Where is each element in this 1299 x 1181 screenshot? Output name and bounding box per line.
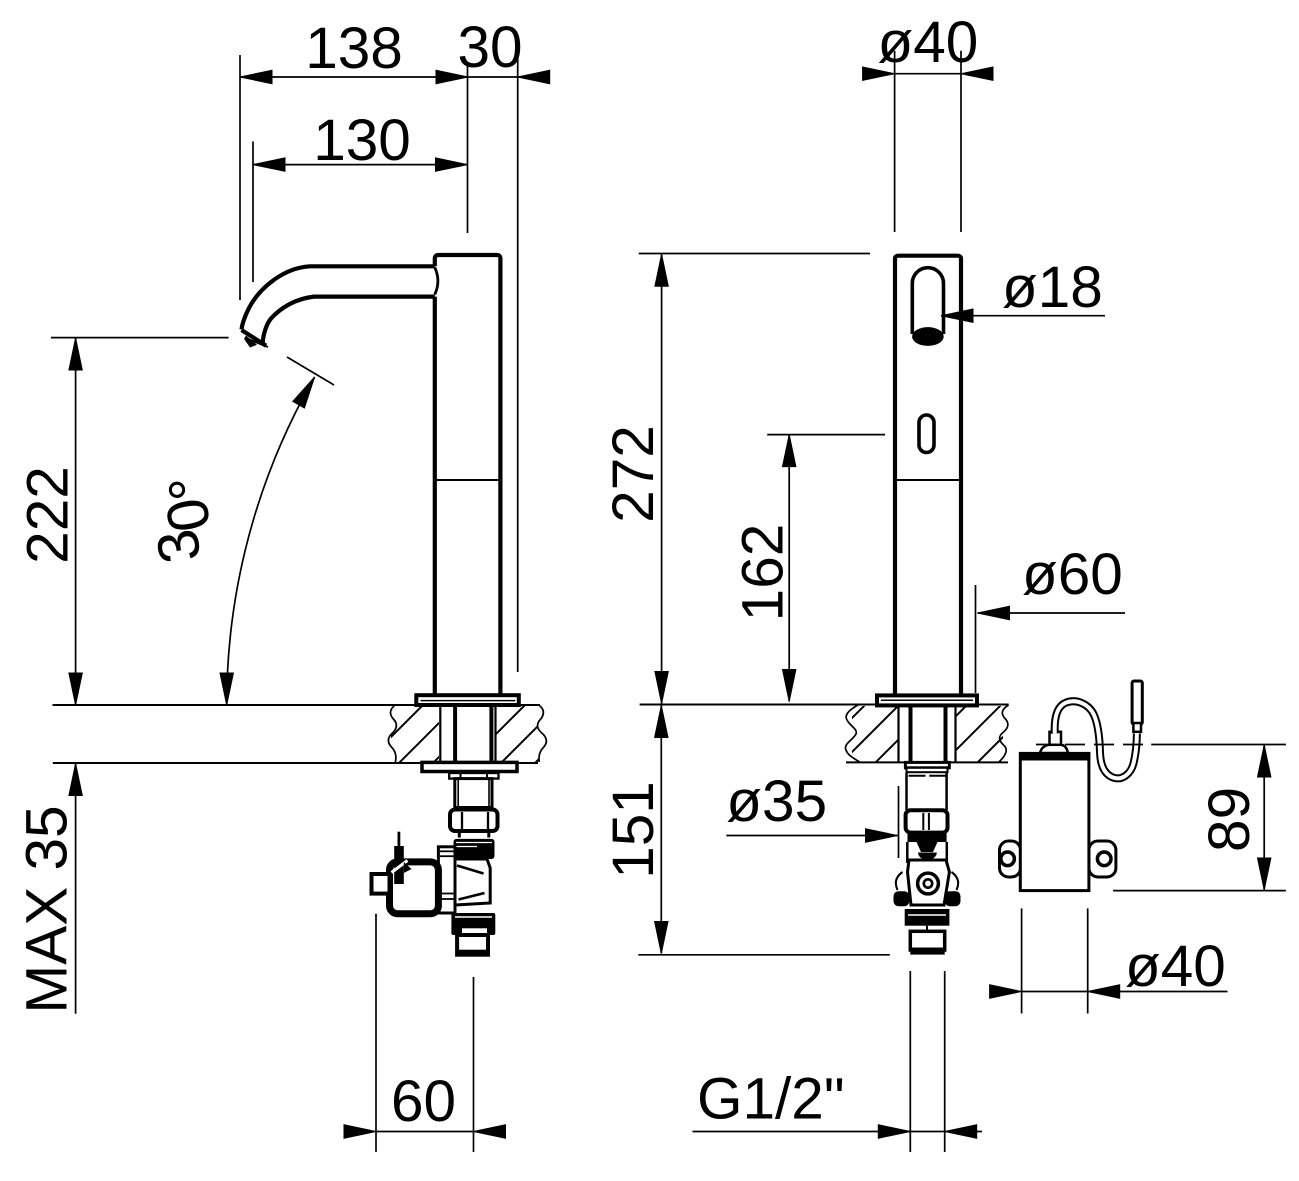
arrow 89 top [1258,745,1271,777]
extension line spout tip (138 dim) [239,55,241,300]
shank inner left front [909,705,913,762]
reference line sensor level [767,434,885,436]
svg-text:ø18: ø18 [1002,255,1103,320]
svg-text:30: 30 [457,15,522,80]
label 30deg [144,470,224,567]
dashed line box top level [1036,744,1151,746]
locknut inner line left [457,779,459,807]
arrow arc bottom [220,673,233,705]
svg-text:89: 89 [1197,787,1262,852]
extension dia40 box right [1087,908,1089,1013]
locknut band front [907,768,948,772]
control box body [1020,753,1089,890]
arrow MAX35 up [69,764,82,796]
arrow dia40 left [863,67,895,80]
valve black bottom front [905,909,950,926]
valve hex front [908,860,950,905]
outlet front [910,931,944,950]
solenoid tab [372,874,390,894]
locknut tick right [486,773,488,779]
cable inner white [1055,701,1137,778]
locknut chamfer band [449,773,498,779]
arrow 151 top [655,706,668,738]
valve body side view [455,859,490,905]
shank inner left [453,705,457,762]
mounting tab left [1000,841,1021,877]
spout tip face [242,330,267,346]
cable dome [1040,745,1068,753]
arrow dia18 [941,309,973,322]
extension line 60 left [375,914,377,1152]
connector plug [1132,681,1142,724]
arrow 60 left [344,1125,376,1138]
arrow 162 top [783,435,796,467]
tab hole right [1097,852,1111,866]
hatch left block B [852,706,899,762]
dimension line 60 [376,1131,474,1133]
reference line valve outlet [638,954,890,956]
arrow 151 bottom [655,922,668,954]
arrow 272 bottom [655,672,668,704]
extension line outlet (130 dim) [252,142,254,283]
dimension line 89 [1263,745,1265,890]
side lug left [894,891,910,906]
hatch left block A [391,706,439,762]
valve black top front [908,834,947,843]
outlet hole dia18 [912,327,944,346]
arrow 130 left [253,158,285,171]
arrow 30 right [518,70,550,83]
wavy edge left A [388,705,396,762]
dimension line dia40 box [1022,991,1228,993]
faucet body front view [895,256,961,695]
dimension line dia40 top [895,73,961,75]
extension line 60 right [473,977,475,1152]
extension line dia60 [975,585,977,693]
lug arc left [896,872,903,890]
leader dia35 [726,835,897,837]
G12 extension left [909,971,911,1152]
svg-text:138: 138 [305,16,403,81]
override screw outer [918,873,939,894]
arrow 130 right [436,158,468,171]
ref line 89 top [1151,744,1286,746]
nut facet line 2 [928,813,930,830]
dimension line 151 [660,706,662,954]
wavy edge left B [845,705,860,762]
svg-text:ø60: ø60 [1022,542,1123,607]
valve funnel [917,842,938,852]
flange left view [416,695,519,705]
bottom band stripe [908,914,946,916]
pipe front [907,773,947,810]
lower band collar white [462,928,487,934]
arrow 138 left [240,70,272,83]
tab hole left [1001,852,1015,866]
arrow dia40 right [961,67,993,80]
wavy edge right A [538,705,547,762]
svg-text:130: 130 [313,108,411,173]
svg-text:ø40: ø40 [878,10,979,75]
arrow 60 right [474,1125,506,1138]
washer left view [422,762,517,771]
svg-text:ø35: ø35 [726,769,827,834]
extension line dia40 top right [960,51,962,232]
svg-text:151: 151 [601,781,666,879]
tangent line 30deg [287,357,334,385]
valve diagonal bottom [459,893,485,900]
locknut inner line right [488,779,490,807]
spout top outline [242,266,435,329]
body seam front [895,479,961,481]
mounting tab right [1089,841,1116,877]
lug arc right [952,872,959,890]
cable gland [1050,732,1062,745]
shank outer left front [897,705,899,762]
cable outer [1055,701,1137,778]
dimension line 222 [75,338,77,705]
sensor window [919,415,934,453]
flange front view [877,695,977,705]
side lug right [945,891,961,906]
svg-text:162: 162 [731,524,796,622]
solenoid pin wire [397,832,400,852]
valve inlet column [438,847,455,913]
arrow dia35 [866,829,898,842]
arrow 138 right [436,70,468,83]
arrow dia40 box right [1088,985,1120,998]
counter top line front [640,704,1009,706]
collar white front [908,927,947,932]
band white stripe 1 [456,842,492,844]
svg-text:272: 272 [601,425,666,523]
shank outer left [439,705,441,762]
reference line spout outlet level [51,337,229,339]
leader dia18 [941,315,1105,317]
arrow G12 right [945,1125,977,1138]
extension line dia40 top left [894,51,896,232]
washer front [905,762,949,767]
arrow 222 top [69,338,82,370]
leader dia60 [978,612,1126,614]
flange inner line front [881,699,973,701]
lower band white stripe [455,916,492,918]
compression nut left view [450,810,498,832]
nut facet right [487,812,489,829]
solenoid pin base [394,846,404,884]
outlet bottom cap [910,948,944,955]
dimension line MAX 35 [75,764,77,1014]
flange inner line [421,700,516,702]
compression nut front [906,810,948,832]
shank outer right [494,705,496,762]
solenoid wedge [392,861,408,873]
extension line flange edge (30 dim) [517,55,519,672]
arrow 222 bottom [69,673,82,705]
extension dia40 box left [1021,908,1023,1013]
body seam line [435,479,501,481]
hatch right block B [956,706,1004,762]
valve diagonal top [457,866,484,874]
column rib 2 [440,855,455,857]
reference line body top [639,253,870,255]
ref line 89 bottom [1113,890,1286,892]
band white stripe 2 [456,846,477,848]
svg-text:60: 60 [391,1069,456,1134]
nut facet line 1 [922,813,924,830]
shank inner right front [944,705,948,762]
dimension line 162 [788,435,790,702]
collar divider [926,926,928,932]
column rib 1 [440,850,455,852]
spout outlet front [912,268,943,334]
valve lower black band [451,913,495,935]
spout bottom outline [263,297,435,344]
arrow 162 bottom [783,670,796,702]
thread dash left [909,775,926,777]
arrow dia40 box left [990,985,1022,998]
svg-text:222: 222 [16,466,81,564]
arrow 272 top [655,254,668,286]
G12 extension right [944,971,946,1152]
valve dome [918,853,937,860]
dimension line 272 [661,254,663,703]
G12 dimension line [693,1131,983,1133]
counter bottom line front [846,761,1008,763]
arrow arc top [293,374,321,408]
box top cap [1019,752,1090,761]
aerator line [246,338,268,347]
column rib 4 [440,898,455,900]
faucet body side view [435,255,501,695]
wavy edge right B [999,705,1009,762]
pipe stub left view [459,831,489,838]
counter top line left view [53,704,541,706]
locknut body [455,779,492,808]
locknut tick left [460,773,462,779]
arrow dia60 [978,606,1010,619]
column rib 3 [440,893,455,895]
svg-text:G1/2": G1/2" [697,1067,845,1132]
extension line dia35 [898,786,900,858]
nut facet left [461,812,463,829]
counter bottom line left view [53,762,538,764]
aerator black [244,336,257,348]
outlet pipe left view [457,935,488,955]
dimension line 130 [253,164,468,166]
body joint arc [435,268,438,295]
arrow 89 bottom [1258,858,1271,890]
dimension line 138 / 30 [240,76,548,78]
30 degree arc [227,377,315,705]
shank inner right [489,705,493,762]
override screw inner [924,879,932,887]
thread dash right [929,775,947,777]
connector collar [1133,723,1141,732]
solenoid coil box [390,862,439,914]
svg-text:ø40: ø40 [1125,934,1226,999]
svg-text:MAX 35: MAX 35 [14,805,79,1013]
valve upper black band [454,839,495,859]
shank outer right front [954,705,956,762]
extension line body axis (138/130 dims) [467,66,469,233]
arrow G12 left [878,1125,910,1138]
hatch right block A [497,706,539,762]
